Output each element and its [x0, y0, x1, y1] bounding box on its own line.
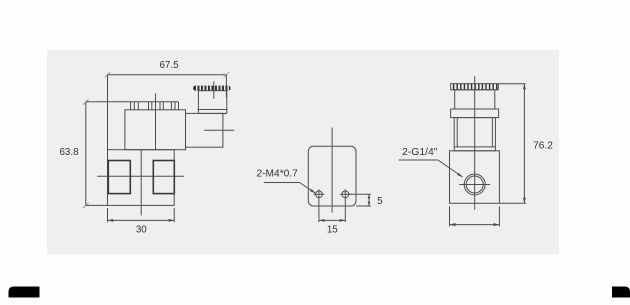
coil fin 3	[137, 102, 139, 110]
coil fin 5	[151, 102, 153, 110]
solenoid tube cap	[455, 90, 495, 109]
DIN connector cap	[198, 91, 226, 114]
right view vertical centerline	[474, 76, 476, 210]
DIN connector block	[186, 113, 223, 147]
port horizontal centerline	[459, 184, 490, 186]
DIN connector screw centerline	[213, 81, 215, 99]
bottom view vertical centerline	[331, 128, 333, 213]
svg-text:15: 15	[327, 225, 338, 236]
bottom width dimension right extension	[498, 206, 500, 226]
valve body (left view)	[108, 150, 175, 206]
mounting hole right	[340, 189, 351, 222]
port circle outer	[464, 174, 485, 195]
dimension 76.2 line	[523, 84, 526, 204]
right port window	[153, 161, 174, 194]
DIN connector cap lip line	[198, 109, 228, 111]
coil fin 6	[159, 102, 161, 110]
bottom view body outline	[308, 146, 356, 206]
grey drawing canvas	[47, 50, 559, 255]
svg-text:2-G1/4": 2-G1/4"	[402, 147, 438, 158]
coil centerline	[155, 93, 157, 150]
mounting hole left	[314, 189, 325, 222]
dimension 67.5 line	[105, 72, 230, 78]
solenoid tube outer	[454, 118, 495, 151]
dimension 5 top extension	[349, 193, 372, 195]
dimension 76.2 top extension	[498, 83, 525, 85]
bottom width dimension left extension	[449, 206, 451, 226]
dimension 30 left extension	[107, 208, 109, 222]
dimension 67.5 left extension line / body left edge	[107, 75, 109, 206]
svg-text:76.2: 76.2	[533, 140, 553, 151]
coil fin 7	[162, 102, 164, 110]
DIN connector block top line extension	[223, 112, 227, 114]
valve body centerline vertical	[140, 150, 142, 216]
coil fin 8	[170, 102, 172, 110]
bottom-left black corner bar	[9, 287, 40, 298]
valve body centerline horizontal	[97, 175, 184, 177]
svg-text:30: 30	[136, 225, 147, 236]
dimension 5 line	[368, 194, 371, 206]
solenoid tube step line	[454, 146, 495, 148]
coil fin 2	[133, 102, 135, 110]
label 2-M4*0.7 leader line	[264, 183, 315, 194]
solenoid tube inner right line	[491, 118, 493, 147]
label 2-G1/4 leader line	[399, 160, 463, 177]
port circle inner	[466, 176, 483, 193]
svg-text:5: 5	[377, 196, 383, 207]
dimension 30 right extension	[173, 208, 175, 222]
solenoid nut ribs (right view)	[451, 84, 499, 90]
dimension 67.5 right extension line	[225, 75, 227, 97]
DIN connector screw ribs (left view)	[193, 86, 230, 91]
bottom-right black corner bar	[612, 287, 630, 298]
dimension 5 bottom extension	[356, 205, 371, 207]
DIN connector cable centerline	[204, 129, 234, 131]
left port window	[108, 161, 130, 194]
svg-text:63.8: 63.8	[59, 147, 79, 158]
coil fin 1	[130, 102, 132, 110]
dimension 63.8 bottom extension line	[86, 204, 108, 206]
solenoid tube inner left line	[456, 118, 458, 147]
svg-text:67.5: 67.5	[159, 60, 179, 71]
coil fin 9	[174, 102, 176, 110]
coil body	[125, 110, 186, 150]
dimension 63.8 line	[83, 99, 89, 208]
valve base block (right view)	[450, 151, 500, 204]
coil fin 4	[148, 102, 150, 110]
svg-text:2-M4*0.7: 2-M4*0.7	[257, 169, 299, 180]
fins top right drop	[178, 102, 180, 110]
dimension 76.2 bottom extension	[499, 202, 526, 204]
bottom width dimension line	[450, 223, 500, 226]
dimension 15 line	[319, 219, 345, 222]
solenoid flange ring	[451, 109, 499, 118]
dimension 63.8 top extension + coil fins top line	[86, 101, 179, 103]
dimension 30 line	[108, 219, 175, 222]
